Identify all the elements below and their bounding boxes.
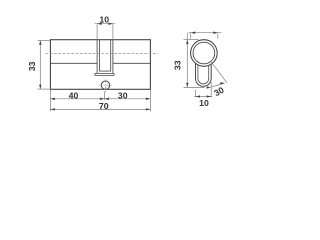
- svg-text:10: 10: [99, 15, 109, 25]
- svg-text:70: 70: [99, 101, 109, 111]
- dim 10 line: [95, 23, 116, 25]
- arrow row2 right: [146, 108, 151, 110]
- arrow row1 mid right: [104, 98, 109, 100]
- cam slot inner bottom: [99, 70, 110, 72]
- profile view outer circle: [191, 40, 218, 67]
- profile edge line right of slot: [113, 62, 150, 64]
- dim 33 right line: [186, 33, 188, 87]
- arrow row1 right: [146, 98, 151, 100]
- arrow 33r bottom: [186, 83, 188, 88]
- cam slot outer left wall: [96, 40, 98, 74]
- bottom extension middle: [103, 92, 105, 101]
- dim 10 extension right: [112, 24, 114, 40]
- svg-text:33: 33: [27, 61, 37, 71]
- cam angle leg line: [211, 62, 227, 83]
- arrow dim33 top: [39, 40, 41, 45]
- dia dim line: [188, 32, 221, 34]
- arrow 33r top: [186, 40, 188, 45]
- arrow arc right: [220, 82, 225, 84]
- svg-text:33: 33: [172, 60, 182, 70]
- screw hole crosshair horizontal: [99, 84, 112, 86]
- arrow arc left: [207, 86, 211, 88]
- arrow row1 left: [50, 98, 55, 100]
- profile edge line left of slot: [50, 62, 97, 64]
- profile body outer wall: [196, 64, 212, 87]
- arrow 10p left: [196, 95, 201, 97]
- arrow row1 mid left: [100, 98, 105, 100]
- cam angle arc: [211, 83, 225, 87]
- arrow dim10 left: [97, 23, 102, 25]
- cylinder body front view rectangle: [50, 40, 150, 90]
- svg-text:10: 10: [199, 98, 209, 108]
- dim 10 profile line: [194, 95, 212, 97]
- dim 33 right extension top: [184, 39, 199, 41]
- arrow dim33 bottom: [39, 85, 41, 90]
- screw hole: [101, 81, 109, 89]
- dim 10 extension left: [96, 24, 98, 40]
- profile body inner wall: [198, 65, 209, 84]
- arrow dim10 right: [108, 23, 113, 25]
- svg-text:40: 40: [69, 90, 79, 100]
- dim 33 left line: [39, 41, 41, 89]
- dim 33 left extension top: [38, 39, 50, 41]
- arrow dia left: [191, 32, 196, 34]
- arrow dia right: [213, 32, 218, 34]
- centerline axis front view: [46, 52, 159, 54]
- dim 10 profile extension right: [210, 82, 212, 97]
- dia dim extension left: [190, 33, 192, 39]
- svg-text:30: 30: [212, 85, 226, 99]
- cam slot inner right wall: [110, 40, 112, 71]
- dim row2 line: [50, 108, 150, 110]
- svg-text:30: 30: [118, 91, 128, 101]
- cam slot bottom bar: [95, 73, 114, 75]
- dim 33 left extension bottom: [38, 88, 50, 90]
- cam slot outer right wall: [112, 40, 114, 74]
- screw hole crosshair vertical: [105, 79, 107, 92]
- dia dim extension right: [217, 33, 219, 39]
- arrow row2 left: [50, 108, 55, 110]
- arrow 10p right: [207, 95, 212, 97]
- bottom extension right: [149, 90, 151, 112]
- bottom extension left: [49, 90, 51, 112]
- profile view inner circle: [193, 42, 215, 64]
- cam slot inner left wall: [98, 40, 100, 71]
- dim row1 line: [50, 98, 150, 100]
- dim 33 right extension bottom: [184, 87, 205, 89]
- dim 10 profile extension left: [195, 90, 197, 97]
